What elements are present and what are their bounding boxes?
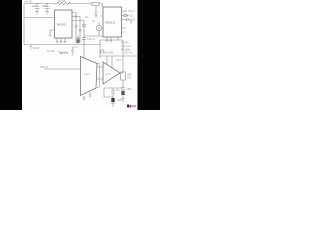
capacitor C4 vertical bbox=[71, 47, 74, 56]
svg-text:OUT 1: OUT 1 bbox=[128, 10, 136, 13]
wire line level input bbox=[44, 68, 81, 70]
svg-text:100u+: 100u+ bbox=[42, 5, 49, 8]
LED D2 bbox=[112, 97, 114, 98]
svg-text:OUT: OUT bbox=[116, 59, 122, 62]
left black bar bbox=[0, 0, 22, 110]
resistor R2 inline bbox=[92, 2, 99, 5]
wire speaker top feed bbox=[83, 45, 85, 59]
svg-text:10u+: 10u+ bbox=[32, 5, 38, 8]
svg-text:4558: 4558 bbox=[106, 74, 112, 76]
wire feedback horizontal bbox=[100, 39, 123, 41]
capacitor C11 bbox=[111, 91, 115, 97]
svg-text:MN3011: MN3011 bbox=[57, 22, 67, 26]
capacitor C8 bbox=[82, 25, 86, 27]
right black bar bbox=[138, 0, 161, 110]
svg-text:C3 10u: C3 10u bbox=[47, 50, 55, 53]
capacitor C7 electrolytic bbox=[76, 36, 79, 39]
wire input to IC1 bbox=[24, 17, 55, 19]
op-amp U3 bbox=[103, 62, 120, 84]
ground bbox=[89, 92, 92, 98]
svg-text:C13 0.1: C13 0.1 bbox=[124, 52, 133, 55]
ground battery minus bbox=[30, 45, 33, 49]
wire IC1 pin stub bbox=[49, 30, 55, 36]
resistor VR2 box bbox=[121, 72, 126, 80]
ground bbox=[83, 96, 86, 101]
svg-text:S1 9V: S1 9V bbox=[33, 47, 40, 50]
resistor R4 bbox=[58, 51, 68, 53]
wire output column vertical bbox=[122, 40, 124, 72]
capacitor C1 bbox=[35, 4, 40, 12]
capacitor C10 electrolytic bbox=[121, 88, 125, 98]
svg-text:47u: 47u bbox=[116, 89, 121, 92]
wire mid vertical node bbox=[99, 40, 101, 58]
wire IC2 right lower stubs bbox=[122, 28, 127, 32]
wire op-amp output bbox=[120, 72, 123, 74]
ground bbox=[35, 12, 39, 15]
wire IC2 bottom grounds bbox=[106, 37, 109, 42]
svg-text:4.7u: 4.7u bbox=[73, 46, 78, 49]
diode D1 bbox=[122, 14, 130, 17]
wire left vertical rail bbox=[23, 4, 25, 45]
wire output line to jack bbox=[100, 55, 137, 57]
svg-text:VR1 50k: VR1 50k bbox=[104, 52, 114, 55]
pot VR1 bbox=[100, 50, 103, 53]
svg-text:100u: 100u bbox=[127, 88, 133, 91]
capacitor C2 bbox=[45, 4, 50, 12]
capacitor C6 bbox=[79, 30, 82, 32]
ground bbox=[45, 12, 49, 15]
wire op-amp top bias stubs bbox=[107, 56, 112, 68]
wire bottom loop bbox=[104, 88, 123, 97]
svg-text:C10 0.1: C10 0.1 bbox=[87, 38, 96, 41]
svg-text:LED: LED bbox=[117, 99, 122, 102]
capacitor C9 with ground bbox=[122, 18, 133, 23]
wire IC1 right pin verticals bbox=[72, 13, 84, 42]
junction dots bbox=[36, 3, 37, 4]
svg-text:+9V DC: +9V DC bbox=[24, 1, 33, 4]
loudspeaker SP1 bbox=[81, 57, 100, 96]
wire IC2 bottom to feedback line bbox=[117, 37, 119, 40]
wire speaker to op-amp inputs bbox=[97, 67, 103, 79]
watermark logo bbox=[127, 105, 136, 108]
svg-text:R4 4.7k: R4 4.7k bbox=[60, 52, 69, 55]
svg-text:TANK: TANK bbox=[84, 73, 90, 76]
op-amp IC box U1 MN3011 bbox=[55, 10, 73, 38]
transistor Q1 bbox=[96, 26, 101, 31]
wire between boxes bottom bbox=[84, 35, 103, 37]
wire top supply rail bbox=[24, 4, 103, 8]
wire IC1 bottom pins to ground bbox=[56, 38, 59, 43]
wire IC2 right pin row1 bbox=[122, 10, 128, 12]
op-amp IC box U2 MN3101 bbox=[103, 7, 122, 37]
wire bias drop bbox=[95, 6, 98, 18]
ground bbox=[111, 102, 115, 106]
ground bbox=[121, 98, 125, 102]
wire bottom ground rail bbox=[24, 44, 100, 46]
wire C8 column down bbox=[82, 36, 86, 45]
resistor R1 bbox=[57, 2, 70, 5]
capacitor C5 bbox=[75, 26, 78, 28]
svg-text:MN3101: MN3101 bbox=[106, 21, 116, 25]
svg-text:R1 10k: R1 10k bbox=[58, 0, 66, 3]
svg-text:MIC IN: MIC IN bbox=[41, 66, 49, 69]
